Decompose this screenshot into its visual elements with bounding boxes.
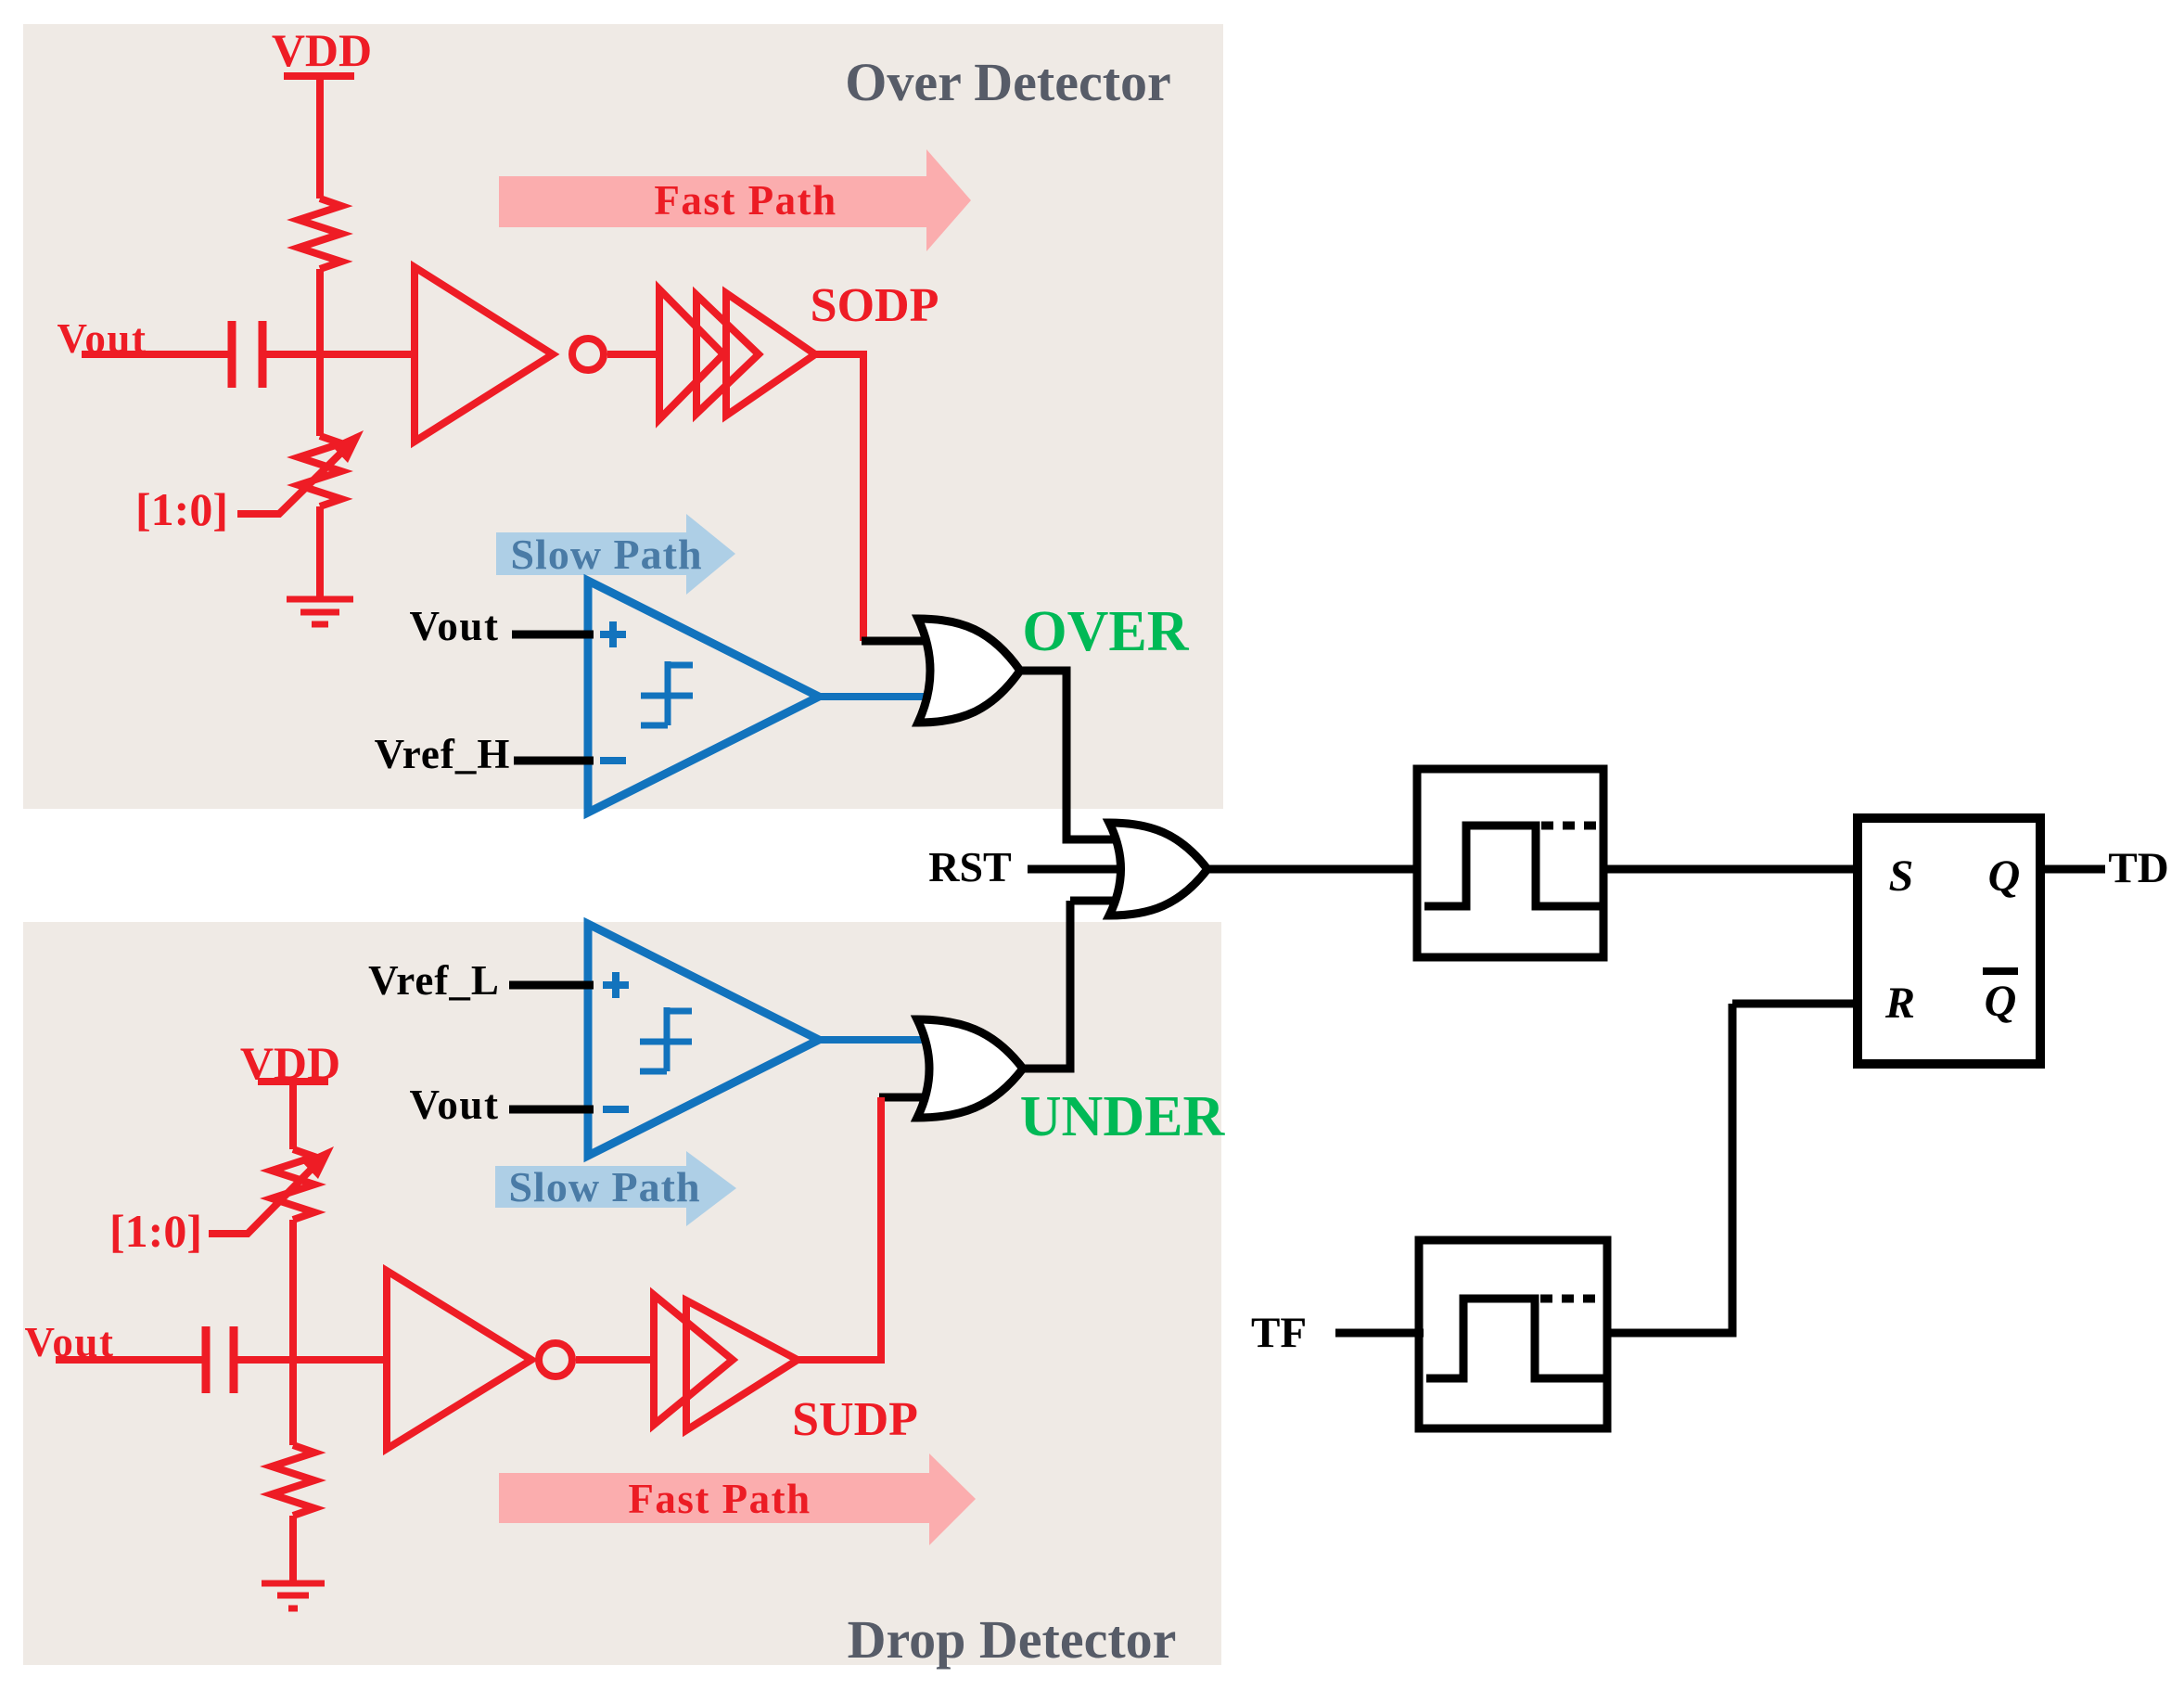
- svg-text:VDD: VDD: [240, 1037, 340, 1089]
- svg-text:Slow Path: Slow Path: [510, 531, 702, 578]
- svg-text:Q: Q: [1988, 851, 2021, 901]
- svg-text:Vout: Vout: [25, 1319, 115, 1365]
- svg-text:TF: TF: [1251, 1309, 1307, 1357]
- svg-text:[1:0]: [1:0]: [135, 483, 228, 535]
- svg-text:OVER: OVER: [1022, 600, 1189, 663]
- svg-text:Q: Q: [1985, 977, 2017, 1026]
- svg-text:R: R: [1884, 979, 1915, 1028]
- svg-text:Vout: Vout: [57, 315, 147, 362]
- svg-text:UNDER: UNDER: [1020, 1085, 1226, 1148]
- svg-text:S: S: [1889, 851, 1914, 901]
- svg-text:Over Detector: Over Detector: [845, 52, 1171, 112]
- svg-text:SODP: SODP: [811, 279, 939, 332]
- svg-text:Vout: Vout: [410, 603, 500, 649]
- svg-text:Fast Path: Fast Path: [654, 177, 837, 224]
- svg-text:Fast Path: Fast Path: [628, 1476, 811, 1522]
- svg-text:RST: RST: [928, 843, 1011, 890]
- svg-text:Vref_L: Vref_L: [368, 957, 500, 1004]
- svg-text:VDD: VDD: [272, 24, 372, 76]
- svg-text:SUDP: SUDP: [792, 1393, 918, 1446]
- svg-text:[1:0]: [1:0]: [109, 1205, 202, 1257]
- svg-text:Vout: Vout: [410, 1082, 500, 1128]
- svg-text:TD: TD: [2108, 844, 2168, 892]
- svg-text:Slow Path: Slow Path: [508, 1163, 700, 1210]
- svg-text:Drop Detector: Drop Detector: [848, 1609, 1177, 1670]
- svg-text:Vref_H: Vref_H: [375, 731, 511, 777]
